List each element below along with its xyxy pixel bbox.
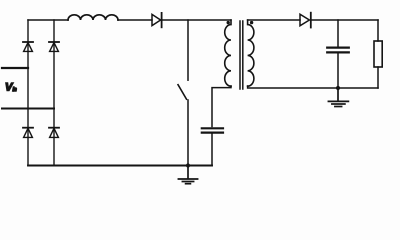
wire diode to transformer primary	[162, 19, 231, 21]
capacitor C1	[202, 128, 223, 132]
wire secondary top rail to diode	[248, 19, 300, 21]
ground secondary	[328, 88, 348, 107]
resistor R load	[374, 41, 382, 67]
wire output capacitor C2 upper lead	[337, 20, 339, 47]
transformer T1 primary winding	[225, 20, 231, 86]
wire load right side upper	[377, 20, 379, 41]
ground primary	[178, 166, 197, 184]
diode D4 (bridge lower-right)	[49, 128, 59, 138]
node polarity dot secondary	[250, 21, 253, 24]
node primary ground junction	[186, 163, 190, 167]
svg-text:in: in	[13, 87, 17, 93]
wire secondary top rail to load	[311, 19, 378, 21]
bridge leg left	[27, 20, 29, 166]
capacitor C2	[327, 48, 349, 53]
wire inductor to diode	[118, 19, 152, 21]
wire input line bottom	[2, 108, 54, 110]
wire top rail left segment	[28, 19, 68, 21]
wire switch upper lead	[187, 20, 189, 80]
wire input line top	[2, 67, 28, 69]
transformer T1 core	[240, 21, 243, 89]
inductor L1	[68, 15, 118, 20]
wire capacitor C1 lower lead	[211, 134, 213, 166]
diode D3 (bridge lower-left)	[23, 128, 33, 138]
wire output capacitor C2 lower lead	[337, 54, 339, 89]
diode D2 (bridge upper-right)	[49, 42, 59, 51]
diode D1 (bridge upper-left)	[23, 42, 33, 51]
wire bottom rail	[28, 165, 212, 167]
transformer T1 secondary winding	[248, 20, 254, 86]
wire secondary bottom rail	[248, 86, 378, 88]
node polarity dot primary	[227, 21, 230, 24]
bridge leg right	[53, 20, 55, 166]
wire capacitor C1 upper lead	[212, 86, 231, 127]
node secondary ground junction	[336, 86, 340, 90]
diode D6	[300, 13, 311, 28]
switch S1 blade	[178, 85, 187, 100]
wire switch lower lead	[187, 100, 189, 166]
diode D5	[152, 13, 162, 27]
wire load right side lower	[377, 67, 379, 88]
